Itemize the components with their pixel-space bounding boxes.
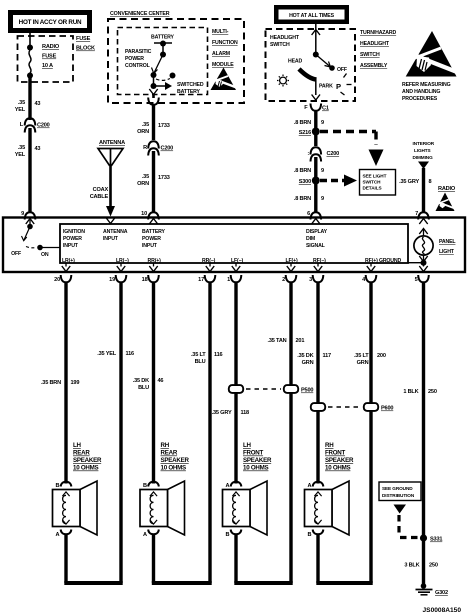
- switched battery label: [177, 82, 204, 95]
- svg-text:SPEAKER: SPEAKER: [73, 457, 102, 464]
- ignition power input label: [63, 229, 85, 249]
- pin 17 cup: [205, 275, 216, 282]
- svg-text:INPUT: INPUT: [103, 236, 119, 242]
- svg-text:10 OHMS: 10 OHMS: [325, 465, 351, 472]
- wire pin20 to LH rear speaker: [64, 282, 67, 484]
- hot-at-all-times box: [274, 5, 349, 24]
- svg-text:BATTERY: BATTERY: [151, 35, 175, 41]
- svg-text:GRN: GRN: [357, 360, 369, 366]
- svg-text:CABLE: CABLE: [90, 194, 109, 200]
- connector P600 half on RF(+) with link: [328, 403, 393, 411]
- coax arrowhead into radio: [106, 206, 115, 217]
- wire label .35 DK BLU 46: [133, 378, 164, 391]
- svg-text:B: B: [225, 532, 229, 538]
- svg-text:.8 BRN: .8 BRN: [294, 120, 311, 126]
- wire label 3 BLK 250: [404, 563, 437, 569]
- svg-text:FUNCTION: FUNCTION: [212, 40, 238, 46]
- svg-text:1: 1: [227, 277, 230, 283]
- svg-text:43: 43: [35, 101, 41, 107]
- svg-text:HEAD: HEAD: [288, 59, 303, 65]
- svg-text:CONTROL: CONTROL: [125, 63, 151, 69]
- wire label .35 ORN 1733 (upper): [137, 122, 170, 135]
- svg-text:.8 BRN: .8 BRN: [294, 196, 311, 202]
- wire pin17 to RH rear speaker return: [208, 282, 211, 583]
- connector C1: [304, 104, 329, 112]
- display dim signal label: [306, 229, 328, 249]
- splice S300: [299, 177, 320, 186]
- speaker LH front: [223, 481, 268, 535]
- svg-text:YEL: YEL: [15, 107, 26, 113]
- svg-text:SEE LIGHT: SEE LIGHT: [363, 174, 387, 179]
- pin 2 exit arrow: [287, 263, 295, 272]
- svg-text:LIGHTS: LIGHTS: [414, 148, 431, 153]
- wire label .35 DK GRN 117: [297, 353, 331, 366]
- headlight switch dashed box: [266, 29, 356, 101]
- dashed branch from S216 to light switch details: [320, 132, 384, 167]
- svg-text:AND HANDLING: AND HANDLING: [402, 89, 440, 95]
- sun symbol: [277, 75, 289, 87]
- convenience center outer dashed box: [108, 19, 244, 103]
- svg-text:P500: P500: [301, 388, 313, 394]
- speaker LH rear: [53, 481, 98, 535]
- svg-text:RR(+): RR(+): [148, 258, 162, 264]
- svg-text:INPUT: INPUT: [142, 243, 158, 249]
- pin number labels bottom: [54, 277, 417, 283]
- svg-text:.35 BRN: .35 BRN: [41, 380, 61, 386]
- svg-text:REAR: REAR: [73, 450, 90, 457]
- esd symbol (convenience center): [211, 68, 237, 91]
- svg-text:DIMMING: DIMMING: [413, 155, 434, 160]
- RH rear speaker bottom return wire: [152, 534, 212, 583]
- svg-text:10: 10: [141, 211, 147, 217]
- svg-text:C200: C200: [161, 146, 174, 152]
- svg-text:REFER MEASURING: REFER MEASURING: [402, 82, 451, 88]
- svg-text:RF(−): RF(−): [313, 258, 326, 264]
- speaker output labels: [62, 258, 401, 264]
- pin 2 cup: [286, 275, 297, 282]
- splice S216: [299, 128, 320, 137]
- svg-text:.8 BRN: .8 BRN: [294, 168, 311, 174]
- svg-text:.35 DK: .35 DK: [297, 353, 313, 359]
- svg-text:A: A: [225, 483, 229, 489]
- coax cable wire: [109, 167, 112, 208]
- svg-text:SWITCHED: SWITCHED: [177, 82, 204, 88]
- svg-text:LH: LH: [73, 442, 82, 449]
- svg-text:GRN: GRN: [302, 360, 314, 366]
- svg-text:250: 250: [429, 563, 438, 569]
- svg-text:OFF: OFF: [11, 251, 21, 257]
- turn/hazard assembly label: [360, 30, 397, 69]
- svg-text:G302: G302: [435, 590, 448, 596]
- svg-text:9: 9: [321, 120, 324, 126]
- svg-text:.35: .35: [142, 122, 149, 128]
- wire label .35 GRY 118: [212, 410, 249, 416]
- svg-text:MODULE: MODULE: [212, 62, 234, 68]
- svg-text:ANTENNA: ANTENNA: [99, 140, 125, 146]
- parasitic power control label: [125, 49, 152, 69]
- svg-text:HOT AT ALL TIMES: HOT AT ALL TIMES: [289, 13, 335, 19]
- svg-text:RH: RH: [325, 442, 334, 449]
- svg-text:.35 GRY: .35 GRY: [212, 410, 232, 416]
- wire to box exit: [315, 80, 317, 96]
- pin 19 exit arrow: [117, 263, 125, 272]
- svg-text:19: 19: [109, 277, 115, 283]
- svg-text:17: 17: [198, 277, 204, 283]
- svg-text:RADIO: RADIO: [438, 186, 456, 192]
- svg-text:SWITCH: SWITCH: [270, 42, 290, 48]
- wire pin1 to LH front speaker: [234, 282, 237, 484]
- svg-text:9: 9: [321, 196, 324, 202]
- svg-text:LH: LH: [243, 442, 252, 449]
- svg-text:DISPLAY: DISPLAY: [306, 229, 328, 235]
- antenna entry arrow: [106, 218, 114, 224]
- speaker RH front: [305, 481, 350, 535]
- svg-text:199: 199: [71, 380, 80, 386]
- svg-text:ASSEMBLY: ASSEMBLY: [360, 63, 388, 69]
- svg-text:.35 DK: .35 DK: [133, 378, 149, 384]
- svg-text:DETAILS: DETAILS: [363, 186, 382, 191]
- relay switch arm: [151, 55, 176, 81]
- svg-text:B: B: [307, 532, 311, 538]
- terminal letters LH rear: [55, 483, 59, 538]
- svg-text:SPEAKER: SPEAKER: [325, 457, 354, 464]
- LH front speaker label: [243, 442, 272, 472]
- feed wire from hot box: [315, 24, 317, 54]
- wire pin3 to RH front speaker: [316, 282, 319, 484]
- wire conv center to C200: [152, 105, 155, 141]
- LH rear speaker bottom return wire: [64, 534, 122, 583]
- svg-text:117: 117: [323, 353, 332, 359]
- arrow S300 to see light switch details: [320, 175, 357, 187]
- svg-text:FUSE: FUSE: [76, 36, 91, 42]
- wire C200 to radio pin 9: [28, 128, 31, 213]
- arrow down at headlight box exit: [312, 95, 320, 101]
- svg-text:250: 250: [428, 389, 437, 395]
- esd symbol (radio): [436, 193, 456, 212]
- battery power input label: [142, 229, 166, 249]
- svg-text:A: A: [143, 532, 147, 538]
- breakout connector at convenience center exit: [148, 98, 159, 105]
- see light switch details box: [360, 170, 396, 196]
- wire S300 to radio pin 6: [314, 181, 317, 214]
- ground distribution arrow: [394, 505, 407, 514]
- speaker RH rear: [140, 481, 185, 535]
- wire pin18 to RH rear speaker: [152, 282, 155, 484]
- connector P500 half on LF(+) with link: [246, 385, 313, 393]
- splice S331: [420, 534, 442, 542]
- antenna input label: [103, 229, 128, 242]
- panel light label: [439, 239, 456, 255]
- svg-text:BATTERY: BATTERY: [177, 89, 201, 95]
- ignition switch inside radio: [11, 220, 60, 258]
- connector C200 (battery, pin R): [143, 141, 173, 155]
- panel light lamp: [414, 229, 433, 263]
- esd symbol (top right): [406, 31, 457, 77]
- pin 17 exit arrow: [206, 263, 214, 272]
- wiper thick arc: [299, 69, 317, 80]
- pin 9 entry arrow: [26, 219, 34, 225]
- pin 10 entry arrow: [149, 219, 157, 225]
- svg-text:18: 18: [142, 277, 148, 283]
- svg-text:43: 43: [35, 146, 41, 152]
- switch lever to OFF: [316, 55, 335, 71]
- fuse block label: [76, 36, 95, 52]
- wire label .35 LT BLU 116: [191, 352, 223, 365]
- svg-text:A: A: [55, 532, 59, 538]
- terminal letters LH front: [225, 483, 229, 538]
- svg-text:BATTERY: BATTERY: [142, 229, 166, 235]
- svg-text:TURN/HAZARD: TURN/HAZARD: [360, 30, 397, 36]
- pin 20 exit arrow: [62, 263, 70, 272]
- svg-text:10 OHMS: 10 OHMS: [243, 465, 269, 472]
- svg-text:PANEL: PANEL: [439, 239, 456, 245]
- pin 9 connector dome: [25, 212, 36, 219]
- wire label .35 ORN 1733 (lower): [137, 174, 170, 187]
- svg-text:ON: ON: [41, 252, 49, 258]
- svg-text:S300: S300: [299, 179, 311, 185]
- svg-text:RADIO: RADIO: [42, 44, 60, 50]
- ground bus stub and junction: [408, 260, 427, 266]
- connector P500 half on LF(-): [229, 385, 243, 393]
- svg-text:1733: 1733: [158, 123, 170, 129]
- svg-text:7: 7: [415, 211, 418, 217]
- svg-text:1 BLK: 1 BLK: [403, 389, 418, 395]
- svg-text:116: 116: [214, 352, 223, 358]
- svg-text:6: 6: [307, 211, 310, 217]
- svg-text:POWER: POWER: [63, 236, 82, 242]
- pin 3 cup: [313, 275, 324, 282]
- svg-text:LR(−): LR(−): [116, 258, 129, 264]
- terminal letters RH rear: [143, 483, 147, 538]
- svg-text:9: 9: [321, 168, 324, 174]
- svg-text:HEADLIGHT: HEADLIGHT: [270, 35, 300, 41]
- svg-text:P: P: [336, 82, 341, 91]
- terminal letters RH front: [307, 483, 311, 538]
- svg-text:S331: S331: [430, 537, 442, 543]
- svg-text:.35 GRY: .35 GRY: [399, 179, 419, 185]
- svg-text:5: 5: [415, 277, 418, 283]
- wire label .8 BRN 9 (upper): [294, 120, 324, 126]
- wire C200 to S300: [314, 157, 317, 180]
- switched battery tap: [151, 75, 173, 90]
- svg-text:SPEAKER: SPEAKER: [243, 457, 272, 464]
- svg-text:BLU: BLU: [195, 359, 206, 365]
- svg-text:INTERIOR: INTERIOR: [413, 141, 435, 146]
- wire C200 to radio pin 10: [152, 151, 155, 213]
- wire pin2 to LH front speaker return: [289, 282, 292, 583]
- wire label .35 TAN 201: [267, 338, 304, 344]
- svg-text:.35 YEL: .35 YEL: [97, 351, 116, 357]
- svg-text:LF(−): LF(−): [231, 258, 243, 264]
- connector C200 (dim signal): [307, 147, 339, 161]
- radio outer box: [3, 218, 465, 273]
- svg-text:B: B: [143, 483, 147, 489]
- interior lights dimming feed arrow: [418, 162, 429, 170]
- svg-text:BLOCK: BLOCK: [76, 46, 95, 52]
- antenna symbol: [98, 149, 123, 168]
- pin 5 exit arrow: [419, 263, 427, 272]
- pin 19 cup: [116, 275, 127, 282]
- wire S216 to C200: [314, 132, 317, 147]
- svg-text:RH: RH: [161, 442, 170, 449]
- wire label .35 YEL 43 (upper): [15, 100, 41, 113]
- wire label .35 GRY 8: [399, 179, 431, 185]
- svg-text:P600: P600: [381, 406, 393, 412]
- pin 20 cup: [61, 275, 72, 282]
- pin 6 connector dome: [311, 212, 322, 219]
- pin 6 entry arrow: [312, 219, 320, 225]
- svg-text:BLU: BLU: [138, 385, 149, 391]
- svg-text:YEL: YEL: [15, 152, 26, 158]
- svg-text:FRONT: FRONT: [243, 450, 264, 457]
- svg-text:118: 118: [241, 410, 250, 416]
- wire label 1 BLK 250: [403, 389, 436, 395]
- svg-text:ORN: ORN: [137, 181, 149, 187]
- svg-text:MULTI-: MULTI-: [212, 29, 229, 35]
- svg-text:200: 200: [377, 353, 386, 359]
- wire label .35 YEL 116: [97, 351, 134, 357]
- svg-text:2: 2: [282, 277, 285, 283]
- svg-text:201: 201: [296, 338, 305, 344]
- svg-text:CONVENIENCE CENTER: CONVENIENCE CENTER: [110, 11, 170, 17]
- svg-text:RR(−): RR(−): [202, 258, 216, 264]
- svg-text:.35: .35: [18, 145, 25, 151]
- svg-text:REAR: REAR: [161, 450, 178, 457]
- wire from hot box into fuse: [29, 33, 31, 47]
- svg-text:DISTRIBUTION: DISTRIBUTION: [382, 493, 415, 498]
- svg-text:SEE GROUND: SEE GROUND: [382, 486, 413, 491]
- battery feed node: [154, 41, 172, 58]
- svg-text:INPUT: INPUT: [63, 243, 79, 249]
- pin 5 cup: [418, 275, 429, 282]
- connector C200 (left, pin L): [20, 118, 50, 132]
- wire label .8 BRN 9 (middle): [294, 168, 324, 174]
- svg-text:B: B: [55, 483, 59, 489]
- wire C1 to S216: [314, 111, 317, 132]
- svg-text:SWITCH: SWITCH: [363, 180, 382, 185]
- pin 10 connector dome: [148, 212, 159, 219]
- arrow out of parasitic box: [149, 89, 157, 95]
- wire fuse to C200: [28, 78, 31, 120]
- svg-text:C1: C1: [322, 106, 329, 112]
- switch pivot: [313, 52, 319, 58]
- multifunction alarm module label: [212, 29, 238, 68]
- hot-in-accy box: [8, 10, 92, 33]
- travel dashes around P: [341, 74, 352, 96]
- pin 7 entry arrow: [419, 219, 427, 225]
- pin 1 exit arrow: [232, 263, 240, 272]
- svg-text:46: 46: [158, 378, 164, 384]
- svg-text:C200: C200: [327, 151, 340, 157]
- interior lights dimming label: [413, 141, 435, 160]
- wire label .8 BRN 9 (lower): [294, 196, 324, 202]
- connector P600 half on RF(-): [311, 403, 325, 411]
- svg-text:POWER: POWER: [142, 236, 161, 242]
- svg-text:ALARM: ALARM: [212, 51, 230, 57]
- svg-text:A: A: [307, 483, 311, 489]
- svg-text:PARASITIC: PARASITIC: [125, 49, 152, 55]
- refer measuring label: [402, 82, 451, 102]
- svg-text:10 OHMS: 10 OHMS: [73, 465, 99, 472]
- wire label .35 LT GRN 200: [354, 353, 386, 366]
- pin 4 cup: [366, 275, 377, 282]
- svg-text:1733: 1733: [158, 175, 170, 181]
- wire dimming to pin 7: [422, 168, 425, 213]
- svg-text:S216: S216: [299, 130, 311, 136]
- svg-text:COAX: COAX: [93, 187, 109, 193]
- svg-text:20: 20: [54, 277, 60, 283]
- radio fuse label: [42, 44, 60, 69]
- svg-text:ANTENNA: ANTENNA: [103, 229, 128, 235]
- svg-text:LF(+): LF(+): [286, 258, 298, 264]
- fuse block dashed box: [18, 36, 74, 82]
- svg-text:LIGHT: LIGHT: [439, 249, 455, 255]
- see ground distribution box: [379, 482, 421, 501]
- ground wire pin5: [422, 282, 425, 585]
- LH front speaker bottom return wire: [234, 534, 292, 583]
- wire pin4 to RH front speaker return: [369, 282, 372, 583]
- fuse element F (dot, squiggle, dot): [27, 45, 33, 79]
- pin 1 cup: [231, 275, 242, 282]
- pin 18 cup: [148, 275, 159, 282]
- svg-text:.35: .35: [142, 174, 149, 180]
- svg-text:IGNITION: IGNITION: [63, 229, 85, 235]
- ground G302: [416, 583, 448, 596]
- svg-text:JS0008A150: JS0008A150: [423, 607, 462, 614]
- svg-text:SPEAKER: SPEAKER: [161, 457, 190, 464]
- svg-text:ORN: ORN: [137, 129, 149, 135]
- pin 7 connector dome: [418, 212, 429, 219]
- svg-text:R: R: [143, 145, 147, 151]
- svg-text:OFF: OFF: [337, 67, 347, 73]
- svg-text:.35: .35: [18, 100, 25, 106]
- wire pin19 to LH rear speaker return: [119, 282, 122, 583]
- wire label .35 YEL 43 (lower): [15, 145, 41, 158]
- svg-text:HEADLIGHT: HEADLIGHT: [360, 41, 390, 47]
- RH front speaker bottom return wire: [316, 534, 372, 583]
- svg-text:DIM: DIM: [306, 236, 315, 242]
- svg-text:SIGNAL: SIGNAL: [306, 243, 326, 249]
- parasitic power control inner dashed box: [118, 28, 208, 95]
- RH rear speaker label: [161, 442, 190, 472]
- svg-text:POWER: POWER: [125, 56, 144, 62]
- svg-text:FRONT: FRONT: [325, 450, 346, 457]
- wire label .35 BRN 199: [41, 380, 79, 386]
- radio inner box: [60, 224, 408, 263]
- headlight switch label: [270, 35, 300, 48]
- pin 4 exit arrow: [367, 263, 375, 272]
- dashed link to S331: [399, 515, 420, 538]
- svg-text:10 OHMS: 10 OHMS: [161, 465, 187, 472]
- svg-text:PARK: PARK: [319, 84, 333, 90]
- svg-text:3 BLK: 3 BLK: [404, 563, 419, 569]
- svg-text:C200: C200: [37, 123, 50, 129]
- svg-text:FUSE: FUSE: [42, 54, 57, 60]
- svg-text:HOT IN ACCY OR RUN: HOT IN ACCY OR RUN: [19, 19, 82, 26]
- svg-text:.35 LT: .35 LT: [191, 352, 206, 358]
- coax cable label: [90, 187, 109, 200]
- svg-text:.35 TAN: .35 TAN: [267, 338, 286, 344]
- svg-text:9: 9: [21, 211, 24, 217]
- svg-text:SWITCH: SWITCH: [360, 52, 380, 58]
- arrow up to hot box: [312, 30, 320, 36]
- svg-text:116: 116: [126, 351, 135, 357]
- RH front speaker label: [325, 442, 354, 472]
- svg-text:8: 8: [429, 179, 432, 185]
- pin 3 exit arrow: [314, 263, 322, 272]
- svg-text:3: 3: [309, 277, 312, 283]
- svg-text:.35 LT: .35 LT: [354, 353, 369, 359]
